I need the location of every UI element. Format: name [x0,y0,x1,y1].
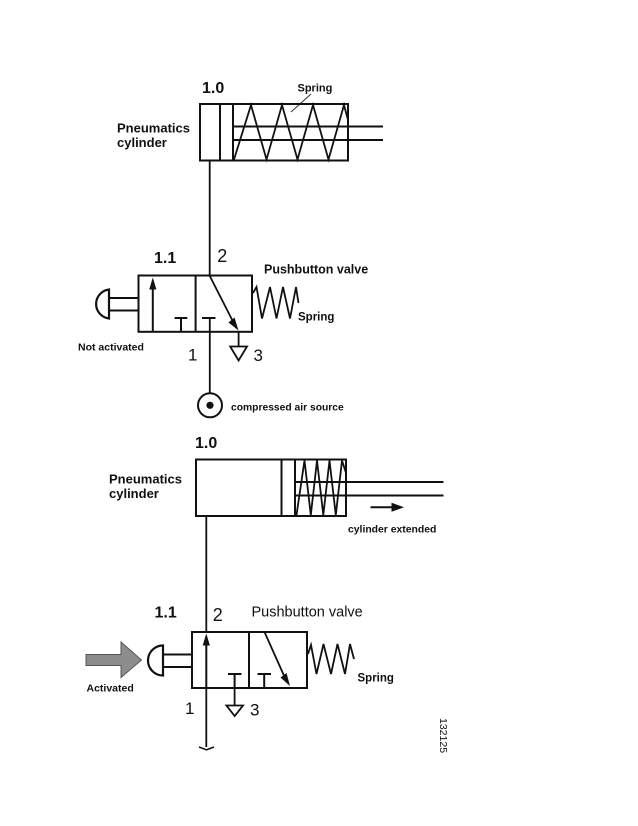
flow arrow up, left square (top valve) [152,287,154,332]
svg-text:Pneumatics: Pneumatics [117,121,190,136]
compressed return spring (bottom cylinder) [297,461,347,516]
blocked port T, left square (bottom valve) [228,673,242,675]
activation arrow (gray) [86,642,142,678]
svg-text:1.1: 1.1 [155,605,177,622]
pushbutton stem (bottom valve) [163,654,192,656]
svg-text:cylinder: cylinder [109,486,159,501]
svg-text:Pneumatics: Pneumatics [109,472,182,487]
blocked port T, left square (top valve) [175,317,188,319]
svg-text:compressed air source: compressed air source [231,403,344,414]
wire valve port1 to air source (top) [209,318,211,393]
svg-text:3: 3 [254,346,263,365]
svg-text:Spring: Spring [298,312,334,324]
cylinder 1.0 body (top) [200,104,348,161]
return spring (top cylinder) [234,105,348,160]
svg-text:132125: 132125 [437,718,449,753]
cylinder 1.0 body (bottom) [196,460,346,517]
svg-text:1: 1 [185,699,194,718]
blocked port T, right square (bottom valve) [258,673,272,675]
svg-text:cylinder extended: cylinder extended [348,525,436,536]
svg-text:cylinder: cylinder [117,135,167,150]
arrow cylinder extended [371,506,393,508]
wire valve port1 down (bottom) [205,688,207,747]
exhaust stem (top valve) [238,332,240,347]
piston rod (bottom cylinder) [295,481,444,483]
air source arc (bottom) [199,747,214,750]
wire cylinder to valve (bottom) [205,516,207,632]
svg-text:2: 2 [217,246,227,266]
blocked port T, right square (top valve) [202,317,216,319]
blocked port T stem to exhaust (bottom valve) [234,674,236,688]
flow diagonal arrow (bottom valve) [265,632,286,679]
svg-text:3: 3 [250,701,259,720]
piston (bottom cylinder, extended) [281,460,283,517]
piston (top cylinder) [219,104,221,161]
svg-text:Spring: Spring [358,673,394,685]
svg-text:2: 2 [213,605,223,625]
pushbutton dome (bottom valve) [148,646,163,676]
svg-text:1.1: 1.1 [154,250,176,267]
exhaust triangle port 3 (top valve) [230,347,247,361]
svg-text:1.0: 1.0 [195,435,217,452]
leader line to spring [291,94,311,112]
valve 1.1 body (top, not activated) [139,276,253,332]
flow diagonal arrow 2->3 (top valve) [210,276,234,323]
return spring (bottom valve) [308,644,354,674]
svg-text:1: 1 [188,346,197,365]
exhaust stem (bottom valve) [234,688,236,706]
svg-text:Spring: Spring [298,83,333,95]
compressed air source symbol [198,393,222,417]
valve 1.1 body (bottom, activated) [192,632,307,688]
valve divider (top) [195,276,197,332]
valve divider (bottom) [248,632,250,688]
pushbutton dome (top valve) [96,290,109,319]
wire cylinder to valve (top) [209,161,211,276]
svg-text:Not activated: Not activated [78,342,144,354]
return spring (top valve) [253,287,299,319]
svg-text:1.0: 1.0 [202,80,224,97]
svg-text:Pushbutton valve: Pushbutton valve [264,263,368,277]
svg-text:Activated: Activated [87,683,134,695]
svg-text:Pushbutton valve: Pushbutton valve [252,605,363,621]
pushbutton stem (top valve) [109,297,139,299]
piston rod (top cylinder) [233,126,383,128]
exhaust triangle port 3 (bottom valve) [226,706,243,717]
flow arrow up, left square (bottom valve) [205,643,207,688]
